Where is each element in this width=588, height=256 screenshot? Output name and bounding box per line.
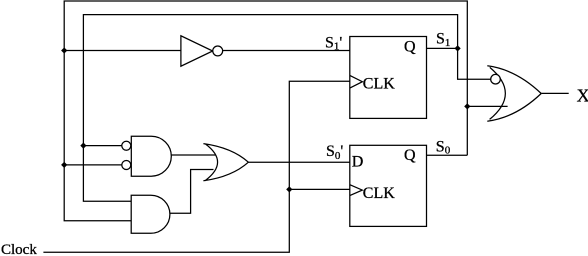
wire S1 to OR2 bubbled input	[458, 48, 491, 79]
node junction dot at inverter tap	[61, 47, 67, 53]
AND gate A1 input bubble b	[122, 161, 131, 170]
node junction dot S0 to OR2	[464, 103, 470, 109]
wire S1 FF1 Q output	[427, 47, 458, 49]
AND gate A1 body	[131, 136, 171, 176]
svg-text:CLK: CLK	[363, 76, 395, 93]
svg-text:Q: Q	[404, 39, 416, 56]
wire S0 to OR2 lower input	[467, 105, 507, 107]
wire AND1 bubbled input a	[83, 145, 122, 147]
svg-text:S1': S1'	[325, 35, 342, 53]
wire AND1 output to OR1	[171, 154, 215, 156]
flip-flop U2 clock edge triangle	[350, 185, 363, 196]
inverter U3 triangle	[181, 36, 213, 66]
wire S1 feedback inner loop	[83, 15, 457, 202]
wire S1-prime inverter input	[64, 50, 181, 52]
wire AND1 bubbled input b	[64, 164, 122, 166]
wire clock distribution	[43, 81, 349, 252]
svg-text:S0': S0'	[326, 143, 343, 162]
node junction dot clock branch	[286, 186, 292, 192]
OR gate O2 body	[487, 66, 541, 121]
svg-text:S1: S1	[436, 31, 450, 49]
inverter U3 bubble	[213, 46, 223, 56]
svg-text:Q: Q	[404, 147, 416, 164]
flip-flop U1 body	[350, 37, 427, 119]
svg-text:X: X	[577, 85, 588, 105]
node junction dot AND1 input b	[61, 162, 67, 168]
wire clock to FF2 CLK	[289, 188, 350, 190]
wire S0 FF2 Q output	[427, 154, 468, 156]
OR gate O2 input bubble	[491, 74, 501, 84]
flip-flop U2 body	[350, 145, 427, 226]
wire inverter output to FF1 D	[222, 50, 350, 52]
svg-text:CLK: CLK	[363, 185, 395, 202]
svg-text:D: D	[352, 154, 364, 171]
wire OR2 output to X	[541, 92, 569, 94]
AND gate A1 input bubble a	[122, 141, 131, 150]
node junction dot S1	[455, 45, 461, 51]
node junction dot AND1 input a	[80, 143, 86, 149]
wire AND2 output to OR1	[170, 170, 214, 214]
svg-text:Clock: Clock	[1, 242, 37, 256]
wire S0 feedback outer loop	[64, 1, 467, 221]
flip-flop U1 clock edge triangle	[350, 75, 363, 88]
OR gate O1 body	[203, 144, 248, 181]
AND gate A2 body	[131, 195, 170, 233]
wire OR1 output S0-prime to FF2 D	[248, 161, 349, 163]
svg-text:S0: S0	[436, 138, 451, 156]
